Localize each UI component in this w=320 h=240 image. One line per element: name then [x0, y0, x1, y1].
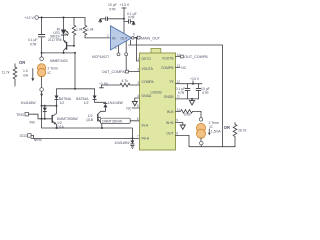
op-amp driver U2 MCP1402T: [111, 26, 132, 50]
terminal OUT_COMPB: [176, 55, 209, 59]
pin 5 label driver output: [133, 33, 135, 37]
wire driver output: [134, 37, 137, 39]
svg-text:NINV: NINV: [34, 138, 43, 142]
svg-text:X7R: X7R: [202, 91, 209, 95]
svg-text:X7R: X7R: [128, 16, 135, 20]
svg-text:GNDA: GNDA: [142, 94, 153, 98]
svg-text:OUT_COMPA: OUT_COMPA: [102, 70, 126, 74]
svg-text:X7R: X7R: [30, 42, 37, 46]
svg-text:1N4148W: 1N4148W: [114, 141, 130, 145]
terminal OUT_COMPA: [102, 56, 140, 74]
terminal DCD input: [20, 134, 43, 143]
resistor R6 26.7k alternative: [233, 122, 246, 146]
wire top rail: [38, 17, 85, 19]
resistor R5 100k pin 10: [176, 110, 202, 118]
node junction Q1A collector: [56, 105, 58, 107]
svg-text:DMMT3904W: DMMT3904W: [102, 119, 122, 123]
current source K1 (2-terminal IC): [38, 64, 46, 77]
node junction D1 top: [41, 105, 43, 107]
svg-text:NC: NC: [126, 106, 131, 110]
capacitor C1 value label: [28, 38, 38, 46]
capacitor C5 0.1uF right: [176, 84, 191, 99]
current source K2: [197, 123, 206, 138]
diode D2 label: [114, 141, 130, 145]
transistor Q3 MMBT4403: [63, 40, 74, 53]
current source K1 label: [48, 67, 58, 75]
svg-text:4: 4: [137, 94, 139, 98]
current arrow 1.5mA: [208, 129, 221, 136]
wire GNDB pin 11 rail: [176, 98, 199, 100]
svg-text:DCD: DCD: [20, 134, 28, 138]
wire rail B noninverting: [31, 137, 140, 139]
terminal socket top right source: [199, 118, 202, 121]
pin 2 label driver input: [107, 34, 109, 38]
pin 5 NC stub: [126, 106, 139, 110]
svg-text:MMBT4403: MMBT4403: [50, 59, 68, 63]
svg-text:mA: mA: [23, 74, 29, 78]
svg-text:6: 6: [137, 117, 139, 121]
svg-text:INV: INV: [30, 120, 36, 124]
svg-text:IN-A: IN-A: [142, 123, 150, 127]
svg-text:MCP1402T: MCP1402T: [92, 55, 109, 59]
svg-text:GETO: GETO: [142, 57, 152, 61]
driver NC pins below: [115, 41, 130, 56]
svg-text:1N4148W: 1N4148W: [21, 101, 37, 105]
svg-text:9: 9: [176, 118, 178, 122]
wire top diode rail: [57, 88, 95, 90]
diode D4 BAT54A half 1: [55, 89, 59, 106]
IC U1 LM339 body: [140, 48, 176, 150]
node junction A1: [41, 17, 43, 19]
svg-text:GNDB: GNDB: [164, 95, 175, 99]
svg-text:LM339: LM339: [151, 90, 162, 94]
wire emitter row down column: [74, 53, 76, 89]
node junction below C1: [41, 52, 43, 54]
transistor Q1B: [98, 114, 102, 128]
svg-text:IN: IN: [112, 37, 116, 41]
capacitor C6 10uF right: [196, 84, 210, 99]
svg-text:COMPB: COMPB: [161, 66, 174, 70]
driver U2 label: [92, 55, 109, 59]
diode D5 BAT54A half 2: [93, 89, 106, 103]
svg-text:IN+A: IN+A: [142, 137, 150, 141]
svg-text:+13 V: +13 V: [120, 3, 130, 7]
svg-text:3: 3: [137, 81, 139, 85]
svg-text:OUT: OUT: [166, 131, 173, 135]
driver output bubble: [132, 37, 135, 40]
pin 13 NC stub: [176, 66, 187, 70]
svg-text:1/2: 1/2: [84, 101, 89, 105]
transistor Q1A: [52, 106, 56, 128]
wire main-out to pin1: [137, 38, 140, 61]
node +13V driver label: [120, 3, 130, 7]
part box DMMT3904W: [101, 118, 140, 123]
diode D6 1N4148W: [98, 101, 123, 114]
wire cap column: [41, 18, 43, 34]
node junction Q1A emitter rail: [56, 127, 58, 129]
resistor R2 1.0k: [83, 18, 110, 38]
node junction Q1B emitter rail: [101, 127, 103, 129]
svg-text:1N4148W: 1N4148W: [108, 101, 124, 105]
svg-text:1.0k: 1.0k: [87, 28, 94, 32]
wire node row to BAT54A#1: [42, 105, 57, 107]
svg-text:IN-B: IN-B: [167, 110, 175, 114]
svg-text:1.0: 1.0: [23, 69, 28, 73]
svg-text:MAIN_OUT: MAIN_OUT: [141, 36, 161, 40]
svg-text:OR: OR: [224, 125, 230, 130]
transistor label MMBT4403: [50, 59, 68, 63]
resistor R3 11.7k alternative: [2, 64, 17, 86]
svg-text:OUT_COMPB: OUT_COMPB: [184, 55, 208, 59]
svg-text:8: 8: [176, 131, 178, 135]
svg-text:OUT: OUT: [121, 37, 128, 41]
wire rail A emitters: [42, 128, 133, 138]
svg-text:1: 1: [137, 57, 139, 61]
svg-text:10 µF: 10 µF: [108, 3, 117, 7]
svg-text:1.0k: 1.0k: [76, 28, 83, 32]
ground pin 4 GNDA: [132, 98, 139, 106]
svg-text:2: 2: [137, 68, 139, 72]
node junction base-column: [41, 118, 43, 120]
terminal socket bottom of current source: [40, 88, 44, 92]
ground pin 9: [176, 123, 186, 130]
diode D4 label: [59, 97, 72, 105]
svg-text:IC: IC: [48, 71, 52, 75]
svg-text:100k: 100k: [184, 113, 192, 117]
svg-text:1.5mA: 1.5mA: [211, 130, 222, 134]
svg-text:IC: IC: [210, 125, 214, 129]
wire below C1: [42, 38, 75, 53]
wire Vs pin 12 rail: [176, 83, 203, 85]
current source K2 label: [209, 121, 219, 129]
svg-text:X7R: X7R: [109, 8, 116, 12]
LED label: [48, 27, 62, 42]
node junction vdd-cap: [123, 18, 125, 20]
capacitor C3 label: [127, 12, 137, 20]
capacitor C1 0.1uF: [38, 35, 45, 37]
IC U1 right pin labels: [161, 56, 174, 135]
diode D2 1N4148W to ground: [130, 138, 134, 148]
node +13V top-left label: [24, 16, 34, 20]
resistor R4 4.7k to COMPA: [103, 79, 140, 87]
svg-text:4: 4: [128, 44, 130, 48]
node junction base-R1: [73, 45, 75, 47]
current arrow 1.0 mA: [23, 69, 34, 82]
node junction D1 column top: [44, 105, 46, 107]
terminal TRIG input: [16, 112, 52, 124]
svg-text:4.7k: 4.7k: [122, 79, 129, 83]
svg-text:VOUTA: VOUTA: [142, 67, 154, 71]
transistor Q1B label: [86, 114, 94, 122]
IC U1 pin numbers left: [137, 57, 140, 138]
node +1.5V label: [99, 82, 109, 88]
svg-text:TRIG: TRIG: [16, 113, 24, 117]
node junction collector row: [63, 52, 65, 54]
wire below current source: [41, 77, 43, 88]
wire pin 8 to bottom node: [176, 135, 236, 146]
terminal socket bottom right source: [200, 138, 204, 147]
ground right cluster: [189, 99, 194, 105]
svg-text:11.7k: 11.7k: [2, 71, 10, 75]
terminal socket top of current source: [40, 57, 44, 61]
terminal +13V driver: [122, 8, 126, 34]
svg-text:NC: NC: [181, 66, 186, 70]
svg-text:+13 V: +13 V: [24, 16, 34, 20]
svg-text:5: 5: [137, 104, 139, 108]
svg-text:Q1B: Q1B: [86, 118, 94, 122]
svg-text:COMPA: COMPA: [142, 80, 155, 84]
LED D3 SIR19-21C/TR8: [61, 18, 69, 41]
svg-text:26.7k: 26.7k: [238, 128, 247, 132]
svg-text:21C/TR8: 21C/TR8: [48, 38, 62, 42]
svg-text:7: 7: [137, 134, 139, 138]
svg-text:1/2: 1/2: [60, 101, 65, 105]
terminal MAIN_OUT: [137, 36, 161, 40]
capacitor C4 10uF: [99, 17, 124, 23]
diode D1 label: [21, 101, 37, 105]
node junction out: [136, 37, 138, 39]
svg-text:X7R: X7R: [178, 91, 185, 95]
wire feedback loop right side: [130, 40, 222, 147]
node junction emitter row right: [74, 52, 76, 54]
transistor Q1A label: [57, 117, 79, 129]
svg-text:3: 3: [115, 46, 117, 50]
node junction rails: [131, 137, 133, 139]
diode D1 1N4148W: [43, 106, 47, 119]
svg-text:+1.5V: +1.5V: [99, 82, 109, 86]
IC U1 pin numbers right: [176, 53, 180, 135]
label OR right: [224, 125, 230, 130]
node junction D1 bottom: [44, 118, 46, 120]
svg-text:5: 5: [133, 33, 135, 37]
resistor R1 1.0k: [72, 18, 83, 46]
wire left main column down: [40, 91, 43, 128]
wire stub to socket terminal: [41, 53, 43, 57]
node junction rail center: [74, 88, 76, 90]
svg-text:2: 2: [107, 34, 109, 38]
label OR left: [19, 60, 25, 65]
node +13V right label: [190, 77, 200, 85]
capacitor C4 10uF cluster label: [108, 3, 117, 12]
svg-text:OR: OR: [19, 60, 25, 65]
svg-text:IN+B: IN+B: [166, 121, 174, 125]
svg-text:+13 V: +13 V: [190, 77, 200, 81]
terminal +13V top-left: [35, 16, 39, 20]
svg-text:Vs: Vs: [170, 80, 174, 84]
node junction A2: [63, 17, 65, 19]
diode D5 label: [76, 97, 89, 105]
capacitor C3 0.1uF: [124, 19, 135, 25]
svg-text:VOUTB: VOUTB: [162, 56, 174, 60]
IC U1 left pin labels: [142, 57, 155, 141]
